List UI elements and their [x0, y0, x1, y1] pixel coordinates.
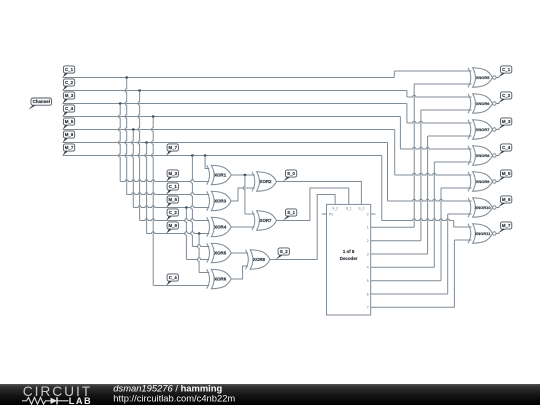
- wire XOR5 out to XOR8 top: [231, 252, 248, 254]
- svg-text:XOR7: XOR7: [260, 218, 273, 223]
- wire M_7 step vertical: [381, 156, 383, 221]
- wire C_4 branch into XOR: [153, 285, 209, 287]
- svg-text:C_1: C_1: [169, 184, 178, 189]
- wire C_2 branch into XOR: [140, 219, 210, 221]
- svg-text:XOR3: XOR3: [214, 199, 227, 204]
- svg-text:6: 6: [367, 292, 369, 296]
- svg-text:M_5: M_5: [502, 171, 511, 176]
- wire M_3 step vertical: [406, 104, 408, 124]
- wire decoder pin 5 vertical: [440, 188, 442, 281]
- svg-text:C_4: C_4: [502, 145, 511, 150]
- wire M_7 to XOR1 top: [205, 156, 209, 169]
- wire M_3 to XNOR7 top input: [407, 121, 472, 123]
- svg-text:M_6: M_6: [502, 197, 511, 202]
- wire M_7 row: [63, 155, 382, 157]
- flag C_2 (corrected output): [498, 99, 506, 103]
- xor gate XOR1: [211, 165, 231, 185]
- junction M_5: [132, 128, 135, 131]
- svg-text:M_5: M_5: [168, 197, 177, 202]
- wire M_6 step vertical: [387, 143, 389, 202]
- svg-text:C_2: C_2: [169, 210, 178, 215]
- junction M_6: [145, 141, 148, 144]
- wire decoder pin 1 to XNOR5 bottom: [414, 83, 471, 85]
- wire XNOR10 output: [496, 207, 500, 209]
- flag M_5 (channel input): [63, 125, 68, 129]
- wire XOR1 out to XOR2 top: [231, 174, 254, 176]
- xor gate XOR6: [211, 269, 231, 289]
- wire M_6 row: [63, 142, 388, 144]
- svg-text:C_2: C_2: [502, 93, 511, 98]
- decoder left pin stub: [322, 213, 327, 215]
- flag C_1 (corrected output): [498, 73, 506, 77]
- junction C_2: [138, 89, 141, 92]
- wire decoder pin 6 to XNOR10 bottom: [448, 213, 472, 215]
- wire XOR3 out up to XOR2 bottom: [231, 188, 254, 201]
- svg-text:XOR2: XOR2: [260, 179, 273, 184]
- flag M_5 (corrected output): [498, 177, 506, 181]
- svg-text:M_6: M_6: [168, 223, 177, 228]
- svg-text:XOR6: XOR6: [214, 277, 227, 282]
- wire M_7 dodge run: [382, 219, 454, 221]
- flag M_5 (syndrome input): [166, 203, 171, 207]
- svg-text:M_7: M_7: [502, 223, 511, 228]
- wire C_2 vertical drop: [138, 91, 140, 221]
- svg-text:http://circuitlab.com/c4nb22m: http://circuitlab.com/c4nb22m: [113, 393, 235, 404]
- wire M_3 row: [63, 103, 407, 105]
- svg-text:M_6: M_6: [65, 132, 74, 137]
- wire C_4 to XNOR8 top input: [400, 147, 471, 149]
- wire C_4 step vertical: [399, 117, 401, 150]
- svg-text:XOR8: XOR8: [253, 257, 266, 262]
- wire decoder pin 2 vertical: [420, 110, 422, 241]
- svg-text:XOR5: XOR5: [214, 251, 227, 256]
- svg-text:5: 5: [367, 279, 369, 283]
- junction XOR1 out: [244, 174, 247, 177]
- svg-text:XNOR5: XNOR5: [476, 75, 491, 80]
- wire decoder pin 1 vertical: [413, 84, 415, 227]
- wire decoder pin 4: [371, 266, 435, 268]
- svg-text:C_1: C_1: [65, 67, 74, 72]
- flag C_4 (channel input): [63, 112, 68, 116]
- svg-text:LAB: LAB: [69, 396, 92, 405]
- wire M_5 row: [63, 129, 395, 131]
- wire decoder pin 3 vertical: [427, 136, 429, 254]
- wire XNOR8 output: [496, 155, 500, 157]
- svg-text:C_4: C_4: [65, 106, 74, 111]
- wire C_1 vertical drop: [125, 78, 127, 195]
- svg-text:M_7: M_7: [65, 145, 74, 150]
- junction M_6 branch: [198, 232, 201, 235]
- svg-text:M_5: M_5: [65, 119, 74, 124]
- wire decoder pin 4 vertical: [433, 162, 435, 267]
- svg-text:XNOR7: XNOR7: [476, 127, 491, 132]
- flag C_2 (channel input): [63, 86, 68, 90]
- svg-text:S_2: S_2: [280, 249, 288, 254]
- wire M_5 branch into XOR: [133, 206, 209, 208]
- wire decoder pin 7 to XNOR11 bottom: [454, 239, 471, 241]
- wire C_4 vertical drop: [151, 117, 153, 286]
- svg-text:M_3: M_3: [65, 93, 74, 98]
- svg-text:S_0: S_0: [358, 206, 364, 210]
- svg-text:C_2: C_2: [65, 80, 74, 85]
- svg-text:4: 4: [367, 266, 369, 270]
- flag C_1 (syndrome input): [166, 190, 171, 194]
- svg-text:3: 3: [367, 252, 369, 256]
- wire decoder pin 6: [371, 293, 448, 295]
- wire M_3 vertical drop: [119, 104, 121, 182]
- wire M_7 jog down: [453, 221, 455, 228]
- svg-text:1 of 8: 1 of 8: [343, 249, 355, 254]
- junction C_4: [152, 115, 155, 118]
- wire XOR6 out up to XOR8 bottom: [231, 266, 248, 279]
- flag M_6 (corrected output): [498, 203, 506, 207]
- svg-text:1: 1: [367, 226, 369, 230]
- wire M_6 vertical drop: [145, 143, 147, 234]
- Channel net label: [28, 105, 35, 109]
- flag S_2: [276, 255, 283, 259]
- wire decoder pin 5 to XNOR9 bottom: [441, 187, 472, 189]
- flag C_1 (channel input): [63, 73, 68, 77]
- svg-text:XNOR8: XNOR8: [476, 153, 491, 158]
- decoder U1 (1 of 8 Decoder): [327, 204, 371, 315]
- flag M_7 (syndrome input): [166, 151, 171, 155]
- svg-text:M_3: M_3: [502, 119, 511, 124]
- flag M_3 (corrected output): [498, 125, 506, 129]
- wire M_5 vertical drop: [132, 130, 134, 208]
- wire M_5 to XNOR9 top input: [395, 173, 472, 175]
- xnor gate XNOR9: [473, 172, 493, 192]
- flag S_0: [283, 177, 290, 181]
- wire M_7 to XOR5 top (horizontal): [192, 245, 209, 247]
- wire M_7 to XOR5 top (vertical): [191, 156, 193, 247]
- wire XNOR9 output: [496, 181, 500, 183]
- svg-text:C_4: C_4: [169, 275, 178, 280]
- flag M_6 (syndrome input): [166, 229, 171, 233]
- svg-text:C_1: C_1: [502, 67, 511, 72]
- wire M_3 branch into XOR: [120, 180, 209, 182]
- svg-text:M_3: M_3: [168, 171, 177, 176]
- junction M_3: [119, 102, 122, 105]
- wire C_1 to XNOR5 top input: [394, 70, 471, 72]
- xnor gate XNOR6: [473, 94, 493, 114]
- svg-text:2: 2: [367, 239, 369, 243]
- xnor gate XNOR11: [473, 224, 493, 244]
- junction M_7 b: [204, 154, 207, 157]
- svg-text:XOR4: XOR4: [214, 225, 227, 230]
- svg-text:XNOR9: XNOR9: [476, 179, 491, 184]
- wire M_7 to XNOR11 top input: [454, 226, 472, 228]
- wire M_5 to XOR5 bottom (horizontal): [186, 258, 209, 260]
- wire XNOR11 output: [496, 233, 500, 235]
- svg-text:XNOR11: XNOR11: [475, 231, 492, 236]
- wire decoder pin 4 to XNOR8 bottom: [434, 161, 471, 163]
- svg-text:XOR1: XOR1: [214, 173, 227, 178]
- flag M_7 (channel input): [63, 151, 68, 155]
- junction M_5 branch: [185, 206, 188, 209]
- xnor gate XNOR5: [473, 68, 493, 88]
- wire C_2 row: [63, 90, 407, 92]
- xnor gate XNOR8: [473, 146, 493, 166]
- svg-text:Decoder: Decoder: [340, 256, 358, 261]
- wire C_4 row: [63, 116, 401, 118]
- flag S_1: [283, 216, 290, 220]
- wire M_6 to XOR6 top (horizontal): [199, 272, 209, 274]
- xnor gate XNOR10: [473, 198, 493, 218]
- wire M_6 branch into XOR: [147, 232, 210, 234]
- xor gate XOR5: [211, 243, 231, 263]
- xor gate XOR4: [211, 217, 231, 237]
- wire into XOR7 top: [245, 213, 255, 215]
- wire C_1 branch into XOR: [127, 193, 210, 195]
- junction M_7 a: [191, 154, 194, 157]
- flag M_6 (channel input): [63, 138, 68, 142]
- wire decoder pin 2: [371, 240, 421, 242]
- wire decoder pin 6 vertical: [447, 214, 449, 294]
- wire decoder pin 5: [371, 280, 441, 282]
- xor gate XOR7: [257, 211, 277, 231]
- svg-text:P1: P1: [329, 213, 333, 217]
- svg-text:S_1: S_1: [346, 206, 352, 210]
- wire XOR1 out down to XOR7 top: [243, 175, 245, 214]
- flag C_4 (syndrome input): [166, 281, 171, 285]
- svg-text:M_7: M_7: [168, 145, 177, 150]
- wire S_1 net: [277, 188, 349, 221]
- xor gate XOR2: [257, 172, 277, 192]
- svg-text:XNOR6: XNOR6: [476, 101, 491, 106]
- flag M_3 (channel input): [63, 99, 68, 103]
- wire decoder pin 7 vertical: [453, 240, 455, 307]
- wire C_1 step vertical: [393, 71, 395, 78]
- wire decoder pin 3: [371, 253, 428, 255]
- svg-text:0: 0: [367, 212, 369, 216]
- flag M_3 (syndrome input): [166, 177, 171, 181]
- wire M_6 to XNOR10 top input: [388, 199, 472, 201]
- flag M_7 (corrected output): [498, 229, 506, 233]
- xnor gate XNOR7: [473, 120, 493, 140]
- svg-text:XNOR10: XNOR10: [475, 205, 492, 210]
- wire XOR4 out to XOR7 bottom: [231, 226, 254, 228]
- svg-text:S_2: S_2: [332, 206, 338, 210]
- wire C_1 row: [63, 77, 395, 79]
- wire S_0 net: [277, 182, 362, 205]
- wire XNOR7 output: [496, 129, 500, 131]
- wire M_5 step vertical: [394, 130, 396, 176]
- wire decoder pin 7: [371, 306, 455, 308]
- svg-text:Channel: Channel: [33, 99, 50, 104]
- wire M_6 to XOR6 top (vertical): [197, 234, 199, 273]
- flag C_2 (syndrome input): [166, 216, 171, 220]
- svg-text:7: 7: [367, 306, 369, 310]
- wire decoder pin 2 to XNOR6 bottom: [421, 109, 472, 111]
- wire C_2 to XNOR6 top input: [407, 95, 472, 97]
- decoder pin 0 stub: [371, 213, 376, 215]
- xor gate XOR3: [211, 191, 231, 211]
- wire XNOR5 output: [496, 77, 500, 79]
- junction C_1: [125, 76, 128, 79]
- svg-text:S_0: S_0: [287, 171, 295, 176]
- wire XNOR6 output: [496, 103, 500, 105]
- wire M_5 to XOR5 bottom (vertical): [185, 208, 187, 260]
- flag C_4 (corrected output): [498, 151, 506, 155]
- wire S_2 net: [270, 195, 335, 260]
- wire decoder pin 1: [371, 226, 415, 228]
- xor gate XOR8: [250, 250, 270, 270]
- wire decoder pin 3 to XNOR7 bottom: [428, 135, 472, 137]
- wire C_2 step vertical: [406, 91, 408, 98]
- svg-text:S_1: S_1: [287, 210, 295, 215]
